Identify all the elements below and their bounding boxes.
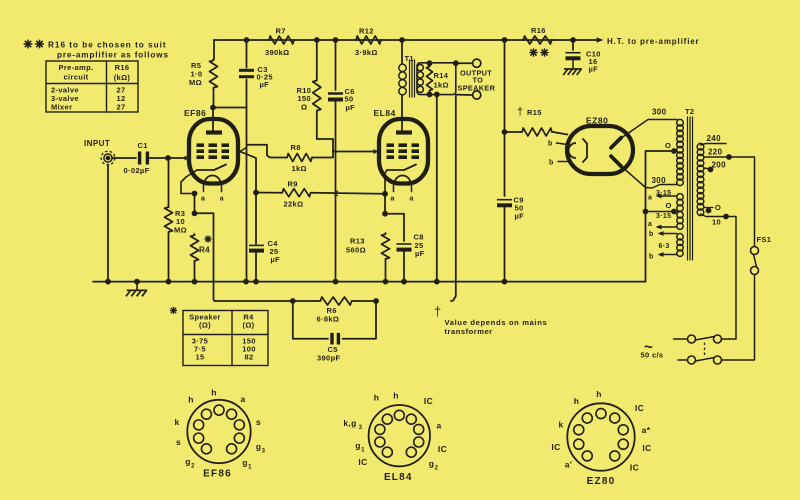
node C4 ground: [253, 279, 259, 285]
valve base EL84: [343, 391, 447, 483]
wire to output terminal bottom: [456, 94, 473, 96]
wire to output terminal top: [456, 62, 473, 64]
valve EZ80 label: [586, 116, 608, 126]
svg-text:Mixer: Mixer: [51, 103, 72, 112]
output terminal top: [473, 59, 481, 67]
wire feedback loop left: [215, 300, 293, 302]
svg-text:FS1: FS1: [757, 235, 772, 244]
transformer T2 3.15 winding a: [677, 194, 683, 212]
wire rail down to R15: [504, 40, 506, 132]
svg-text:†: †: [517, 106, 523, 118]
svg-text:R13: R13: [350, 237, 365, 246]
switch S1 link: [704, 343, 706, 357]
svg-text:EF86: EF86: [203, 469, 232, 480]
note line 2: [57, 51, 169, 60]
wire R4 to ground rail: [194, 262, 196, 282]
wire switch lower stub: [678, 359, 688, 361]
wire feedback from cathode to R6 loop: [195, 213, 215, 301]
svg-text:b: b: [549, 160, 554, 167]
wire bottom ground rail: [93, 281, 646, 283]
wire cathode node down: [194, 194, 196, 214]
table speaker R4 values: [170, 307, 268, 366]
transformer T2 primary winding: [697, 143, 704, 215]
resistor R12: [355, 27, 382, 58]
svg-text:pre-amplifier as follows: pre-amplifier as follows: [57, 51, 169, 60]
svg-text:(Ω): (Ω): [199, 321, 211, 330]
resistor R5: [189, 59, 218, 89]
svg-text:3·15: 3·15: [656, 190, 671, 197]
valve EL84: [379, 119, 428, 192]
svg-text:a: a: [436, 421, 441, 431]
node R4 ground: [192, 279, 198, 285]
svg-text:a: a: [391, 196, 395, 203]
transformer T2 label: [685, 107, 694, 116]
wire R15 node down to C9: [504, 132, 506, 196]
svg-text:b: b: [649, 254, 654, 261]
svg-text:EZ80: EZ80: [587, 476, 616, 487]
label 0 tap: [715, 203, 721, 212]
wire screen rail to C4: [255, 193, 257, 245]
svg-text:s: s: [256, 417, 261, 427]
label 10: [712, 218, 721, 227]
svg-text:g: g: [185, 457, 191, 467]
wire R9 left: [256, 192, 281, 194]
node input shield ground: [105, 279, 111, 285]
wire cathode B to C8: [385, 214, 404, 241]
resistor R13: [346, 233, 390, 260]
svg-text:2: 2: [435, 466, 439, 472]
wire anode node to EF86 anode: [212, 108, 214, 132]
label 240: [707, 134, 722, 143]
node secondary earth tap: [434, 92, 440, 98]
capacitor C5: [317, 333, 340, 363]
wire 3.15 centre tap: [646, 211, 675, 213]
svg-text:1kΩ: 1kΩ: [434, 81, 449, 90]
svg-text:a: a: [240, 394, 245, 404]
svg-text:b: b: [649, 231, 654, 238]
wire top HT rail: [214, 39, 599, 41]
wire R9 to EL84 cathode: [312, 191, 385, 196]
svg-text:k,g: k,g: [343, 418, 356, 428]
wire 10 tap to switch: [722, 217, 737, 340]
svg-text:R16 to be chosen to suit: R16 to be chosen to suit: [48, 41, 167, 50]
node secondary tap ground: [434, 279, 440, 285]
svg-text:Ω: Ω: [301, 103, 307, 112]
node C6 ground: [333, 279, 339, 285]
svg-text:3·9kΩ: 3·9kΩ: [355, 48, 378, 57]
svg-text:R7: R7: [276, 27, 286, 36]
node C8 ground: [401, 279, 407, 285]
wire 3.15b bottom lead: [656, 225, 677, 230]
svg-text:390pF: 390pF: [317, 354, 340, 363]
svg-text:a: a: [648, 195, 652, 202]
svg-text:g: g: [355, 441, 361, 451]
svg-text:MΩ: MΩ: [189, 78, 202, 87]
wire 3.15a top lead: [656, 194, 677, 199]
capacitor C10: [566, 40, 601, 74]
capacitor C1: [124, 141, 150, 175]
transformer T1 label: [405, 54, 414, 63]
wire 240 tap: [701, 144, 727, 146]
wire screen pin to screen rail: [240, 152, 256, 193]
svg-text:1: 1: [361, 448, 365, 454]
wire C8 to ground: [403, 252, 405, 282]
wire HT centre tap to earth line: [646, 151, 675, 282]
svg-text:transformer: transformer: [445, 327, 493, 336]
input jack J1: [101, 151, 115, 165]
svg-text:(Ω): (Ω): [242, 321, 254, 330]
svg-text:R8: R8: [291, 143, 301, 152]
capacitor C4: [249, 239, 280, 264]
resistor R9: [281, 180, 312, 209]
label b top: [649, 231, 654, 238]
svg-text:3: 3: [359, 425, 363, 431]
svg-text:s: s: [176, 437, 181, 447]
wire anode node to C3 line: [213, 107, 247, 109]
svg-text:(kΩ): (kΩ): [114, 73, 131, 82]
wire C6 to ground rail: [335, 101, 337, 282]
node R6 right: [373, 298, 379, 304]
svg-text:300: 300: [652, 108, 667, 117]
svg-text:µF: µF: [346, 103, 356, 112]
wire EL84 grid line: [333, 150, 377, 154]
svg-text:1kΩ: 1kΩ: [292, 164, 307, 173]
dagger R15 label: [517, 106, 542, 118]
svg-text:T2: T2: [685, 107, 694, 116]
label 300 top: [652, 108, 667, 117]
dagger note: [434, 304, 547, 336]
node screen / R9 left: [253, 190, 259, 196]
capacitor C3: [239, 40, 273, 89]
wire input jack shield down: [107, 165, 109, 282]
label 6.3: [659, 243, 670, 250]
svg-text:µF: µF: [515, 212, 525, 221]
wire EZ80 anode 1 lead: [621, 120, 678, 139]
svg-text:†: †: [434, 304, 442, 319]
wire 0 tap: [704, 207, 713, 209]
svg-text:INPUT: INPUT: [84, 139, 110, 148]
resistor R4: [191, 234, 212, 262]
svg-text:k: k: [174, 417, 179, 427]
resistor R7: [265, 27, 295, 58]
svg-text:R14: R14: [434, 71, 449, 80]
svg-text:IC: IC: [630, 463, 639, 473]
svg-text:IC: IC: [642, 443, 651, 453]
svg-text:R16: R16: [531, 26, 546, 35]
resistor R15: [505, 128, 568, 136]
svg-text:g: g: [242, 458, 248, 468]
svg-text:22kΩ: 22kΩ: [284, 200, 304, 209]
wire C1 to grid node: [147, 157, 168, 159]
note line 1: [24, 40, 167, 50]
wire rail to T1 primary: [401, 40, 403, 64]
node EF86 cathode B: [192, 210, 198, 216]
wire fuse to switch: [722, 275, 755, 361]
wire C5 branch right: [343, 301, 377, 339]
node EL84 cathode A: [382, 191, 388, 197]
svg-text:IC: IC: [438, 444, 447, 454]
svg-text:220: 220: [708, 148, 723, 157]
svg-text:0·02µF: 0·02µF: [124, 166, 150, 175]
node R15 left: [502, 129, 508, 135]
node EF86 cathode A: [192, 191, 198, 197]
label 220: [708, 148, 723, 157]
svg-text:Value depends on mains: Value depends on mains: [445, 318, 548, 327]
svg-text:µF: µF: [415, 249, 425, 258]
node C3 top: [244, 37, 250, 43]
svg-text:1: 1: [248, 465, 252, 471]
wire EZ80 heater stub 1: [557, 143, 568, 145]
node grid EF86: [165, 155, 171, 161]
wire C3 down to ground: [246, 80, 248, 282]
svg-text:3: 3: [262, 449, 266, 455]
wire feedback from output box: [451, 95, 456, 301]
wire EZ80 anode 2 lead: [621, 166, 678, 189]
wire R8 to EL84 grid corner: [313, 152, 333, 158]
wire primary bottom lead: [701, 214, 727, 217]
svg-text:R15: R15: [527, 108, 542, 117]
svg-text:EL84: EL84: [374, 108, 396, 118]
svg-text:10: 10: [712, 218, 721, 227]
node R10 top: [314, 37, 320, 43]
transformer T2 6.3 winding: [677, 234, 683, 257]
label 300 bottom: [652, 176, 667, 185]
svg-text:6·8kΩ: 6·8kΩ: [317, 315, 340, 324]
svg-text:h: h: [596, 389, 602, 399]
heater pin labels a a EL84: [391, 196, 414, 203]
svg-text:a*: a*: [642, 425, 651, 435]
svg-text:SPEAKER: SPEAKER: [458, 84, 496, 93]
heater pin labels a a EF86: [201, 196, 224, 203]
mains label: [641, 339, 664, 360]
node R3 ground: [166, 279, 172, 285]
output terminal bottom: [473, 91, 481, 99]
resistor R14: [427, 66, 449, 92]
svg-text:240: 240: [707, 134, 722, 143]
H.T. to pre-amplifier label: [607, 37, 700, 46]
node C3 ground: [243, 279, 249, 285]
svg-text:IC: IC: [635, 403, 644, 413]
node 3.15 centre tap junction: [643, 209, 649, 215]
svg-text:h: h: [188, 395, 194, 405]
svg-text:h: h: [374, 393, 380, 403]
wire 200 tap: [704, 168, 710, 169]
transformer T1 primary winding: [399, 64, 406, 95]
svg-text:µF: µF: [589, 65, 599, 74]
svg-text:IC: IC: [551, 442, 560, 452]
node R13 ground: [383, 279, 389, 285]
INPUT label: [84, 139, 110, 148]
fuse FS1: [751, 235, 772, 275]
ground symbol C10: [563, 69, 582, 75]
svg-text:EL84: EL84: [384, 472, 413, 483]
valve base EZ80: [551, 389, 651, 487]
svg-text:15: 15: [195, 353, 204, 362]
valve EF86: [189, 119, 238, 192]
wire C5 branch left: [293, 301, 328, 339]
svg-text:390kΩ: 390kΩ: [265, 48, 289, 57]
svg-text:82: 82: [244, 353, 253, 362]
wire C9 to ground rail: [504, 207, 506, 282]
node 220 tap: [726, 154, 732, 160]
node C10 top: [570, 37, 576, 43]
transformer T1 secondary winding: [417, 65, 423, 93]
node 10 tap: [723, 214, 729, 220]
wire 6.3 bottom lead: [658, 252, 677, 257]
svg-text:6·3: 6·3: [659, 243, 670, 250]
resistor R8: [286, 143, 313, 173]
svg-text:a: a: [648, 221, 652, 228]
wire screen to R8 gamma: [247, 145, 287, 158]
svg-text:EF86: EF86: [184, 108, 206, 118]
label a top: [648, 195, 652, 202]
valve base EF86: [174, 388, 265, 480]
wire R6 right stub: [353, 300, 376, 302]
node R14 bottom: [427, 92, 433, 98]
svg-text:560Ω: 560Ω: [346, 246, 366, 255]
svg-text:R4: R4: [199, 246, 210, 255]
wire spur C3 line to EF86 screen: [240, 148, 247, 152]
transformer T2 core: [688, 117, 693, 260]
svg-text:h: h: [574, 396, 580, 406]
node EF86 anode: [210, 105, 216, 111]
svg-text:R12: R12: [359, 27, 374, 36]
label a bottom: [648, 221, 652, 228]
ground symbol chassis: [126, 279, 147, 297]
R14 loop box: [417, 63, 456, 95]
svg-text:a': a': [565, 460, 572, 470]
table R16 pre-amp values: [46, 61, 138, 112]
svg-text:H.T. to pre-amplifier: H.T. to pre-amplifier: [607, 37, 700, 46]
svg-text:O: O: [715, 203, 721, 212]
node 0 tap: [706, 208, 712, 214]
svg-text:h: h: [211, 388, 217, 398]
svg-text:50 c/s: 50 c/s: [641, 351, 664, 360]
node HT centre tap: [671, 148, 677, 154]
resistor R10: [297, 40, 321, 112]
svg-text:k: k: [558, 420, 563, 430]
resistor R16: [522, 26, 553, 57]
label b bottom: [649, 254, 654, 261]
svg-text:µF: µF: [271, 255, 281, 264]
svg-text:2: 2: [191, 464, 195, 470]
svg-text:R16: R16: [115, 63, 130, 72]
wire R3 to ground rail: [168, 233, 170, 282]
node R6 left: [290, 298, 296, 304]
capacitor C8: [397, 233, 425, 259]
svg-text:O: O: [666, 201, 672, 210]
svg-text:g: g: [429, 459, 435, 469]
label 3.15 bottom: [656, 213, 671, 220]
wire R6 left stub: [293, 300, 319, 302]
svg-text:circuit: circuit: [64, 73, 89, 82]
wire EL84 cathode lead: [385, 170, 387, 194]
wire grid node down to R3: [168, 158, 170, 206]
svg-text:IC: IC: [424, 396, 433, 406]
node EL84 cathode B: [382, 211, 388, 217]
wire switch upper stub: [674, 338, 688, 340]
wire 220 to fuse: [729, 157, 755, 247]
wire EF86 anode riser to rail: [213, 40, 215, 59]
svg-text:MΩ: MΩ: [174, 226, 187, 235]
OUTPUT TO SPEAKER label: [458, 69, 496, 93]
wire 220 tap: [704, 156, 729, 158]
valve EZ80: [567, 126, 633, 174]
svg-text:a: a: [220, 196, 224, 203]
svg-text:3·15: 3·15: [656, 213, 671, 220]
label 3.15 top: [656, 190, 671, 197]
node 200 tap: [708, 167, 714, 173]
capacitor C6: [328, 40, 355, 112]
capacitor C9: [497, 196, 524, 221]
label 200: [712, 161, 727, 170]
wire R10 bottom to grid line: [317, 112, 333, 152]
switch S1 upper pole: [688, 335, 722, 343]
switch S1 lower pole: [688, 356, 722, 364]
svg-text:h: h: [393, 391, 399, 401]
resistor R3: [165, 206, 187, 235]
valve EL84 label: [374, 108, 396, 118]
wire EL84 cathode down: [384, 194, 386, 214]
wire C4 to ground rail: [255, 253, 257, 282]
wire R5 to anode node: [213, 89, 215, 108]
wire EZ80 heater stub 2: [558, 161, 568, 163]
wire EF86 cathode lead: [181, 170, 197, 194]
svg-text:O: O: [665, 141, 671, 150]
node C9 ground: [502, 279, 508, 285]
valve EF86 label: [184, 108, 206, 118]
heater pin b labels EZ80: [548, 141, 554, 167]
node rail R15 takeoff: [502, 37, 508, 43]
wire secondary tap to ground rail: [436, 94, 438, 281]
svg-text:300: 300: [652, 176, 667, 185]
svg-text:Pre-amp.: Pre-amp.: [59, 63, 94, 72]
node T1 primary top: [399, 37, 405, 43]
wire input to C1: [112, 157, 136, 159]
node C6 top: [333, 37, 339, 43]
svg-text:a: a: [410, 196, 414, 203]
transformer T2 3.15 winding b: [677, 212, 683, 230]
svg-text:27: 27: [116, 103, 125, 112]
node output top corner: [453, 60, 459, 66]
svg-text:a: a: [201, 196, 205, 203]
wire 6.3 top lead: [658, 231, 677, 236]
T2 3.15 centre tap: [666, 201, 677, 214]
T2 HT centre tap: [665, 141, 677, 151]
svg-text:200: 200: [712, 161, 727, 170]
svg-text:g: g: [256, 442, 262, 452]
svg-text:R9: R9: [288, 180, 298, 189]
resistor R6: [317, 297, 354, 324]
svg-text:IC: IC: [358, 457, 367, 467]
wire grid node to EF86 g1: [168, 156, 188, 160]
transformer T1 core: [410, 60, 415, 97]
HT output arrow: [597, 37, 604, 42]
svg-text:b: b: [548, 141, 553, 148]
wire T1 primary to EL84 anode: [401, 95, 403, 131]
transformer T2 HT winding: [677, 119, 684, 185]
wire R13 to ground: [385, 260, 387, 282]
svg-text:C1: C1: [138, 141, 148, 150]
svg-text:µF: µF: [260, 80, 270, 89]
node R14 top: [427, 60, 433, 66]
